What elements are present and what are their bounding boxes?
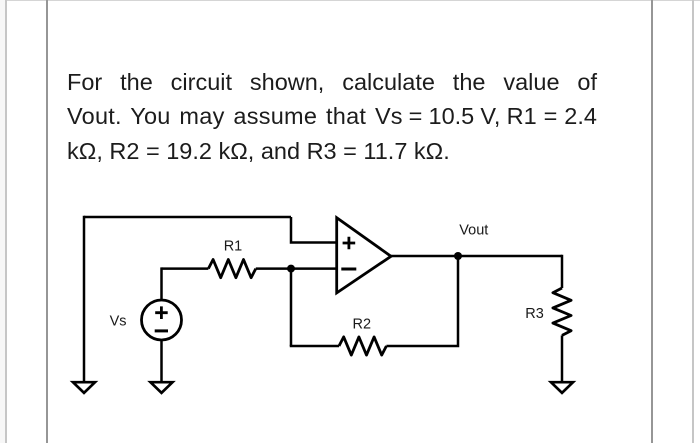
wire R2 left <box>290 345 339 348</box>
wire left rail down <box>83 216 86 382</box>
left outer frame line <box>5 0 7 443</box>
source Vs <box>142 300 182 340</box>
op-amp - input symbol <box>341 268 356 271</box>
wire Vs bottom <box>160 340 163 382</box>
problem text <box>67 65 597 169</box>
wire top (from left rail to op-amp + branch) <box>84 216 291 219</box>
wire R1 right (zigzag to op-amp - input) <box>256 267 337 270</box>
wire + input branch <box>291 217 337 243</box>
right card border <box>651 0 653 443</box>
svg-text:Vs: Vs <box>110 313 127 329</box>
wire R3 bottom <box>561 335 564 382</box>
wire R1 left (from Vs top to zigzag) <box>162 267 209 270</box>
wire Vs top <box>160 267 163 300</box>
svg-text:R3: R3 <box>525 306 544 322</box>
svg-text:R2: R2 <box>353 316 372 332</box>
left margin tint <box>0 0 5 443</box>
resistor R2 <box>339 337 386 355</box>
op-amp U1 <box>337 218 391 293</box>
wire R3 top <box>561 255 564 288</box>
ground (Vs) <box>151 382 173 393</box>
left card border <box>46 0 48 443</box>
svg-text:R1: R1 <box>224 239 243 255</box>
resistor R3 <box>553 288 571 335</box>
svg-text:Vout: Vout <box>459 223 488 239</box>
right outer frame line <box>692 0 694 443</box>
node Vout <box>454 252 462 260</box>
ground (R3) <box>551 382 573 393</box>
source + symbol <box>155 306 168 319</box>
wire output <box>391 255 562 258</box>
op-amp + input symbol <box>343 237 356 250</box>
node junction (inverting input) <box>287 265 295 273</box>
ground (left rail) <box>73 382 95 393</box>
wire R2 right and up to output node <box>386 256 458 346</box>
source - symbol <box>155 329 168 332</box>
resistor R1 <box>208 260 255 278</box>
top border <box>0 0 700 1</box>
wire junction down to R2 <box>290 269 293 346</box>
